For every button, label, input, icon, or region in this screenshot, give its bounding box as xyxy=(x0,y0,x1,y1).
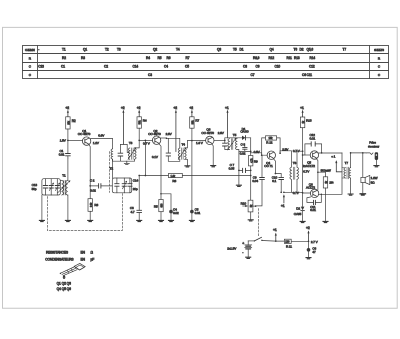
svg-text:1.6 V: 1.6 V xyxy=(196,141,204,145)
T5 tank loop + capacitor xyxy=(223,138,237,150)
svg-text:R11: R11 xyxy=(287,56,293,60)
svg-text:C 2: C 2 xyxy=(90,179,95,183)
ground (T5 secondary) xyxy=(236,185,241,186)
table row 3 entries xyxy=(38,65,315,69)
node R14 tap xyxy=(317,171,319,173)
resistor R11 xyxy=(276,239,309,248)
ground (Q3 emitter) xyxy=(211,166,216,167)
svg-text:SHEETS: SHEETS xyxy=(374,48,384,52)
resistor R3 xyxy=(88,186,99,220)
wire Q5 emitter down xyxy=(316,159,318,190)
svg-text:0.5V: 0.5V xyxy=(254,150,261,154)
svg-text:2.8V: 2.8V xyxy=(218,131,225,135)
svg-text:0.01: 0.01 xyxy=(310,208,316,212)
node emitter / C2 junction xyxy=(89,185,91,187)
table row 4 entries xyxy=(148,73,312,77)
svg-text:C1: C1 xyxy=(61,65,65,69)
svg-text:0.05: 0.05 xyxy=(229,167,235,171)
svg-text:µF: µF xyxy=(91,257,95,261)
svg-text:+2: +2 xyxy=(306,226,310,230)
T3 windings xyxy=(128,141,136,159)
svg-text:0.7 V: 0.7 V xyxy=(293,149,301,153)
svg-text:+2: +2 xyxy=(173,106,177,110)
svg-text:Q4: Q4 xyxy=(270,48,274,52)
resistor R9 xyxy=(249,150,261,200)
node Q4 emitter tap xyxy=(275,173,277,175)
node +1 bottom xyxy=(283,191,285,193)
wire AGC rail xyxy=(139,175,251,177)
wire T6 top to R13 node xyxy=(297,150,303,152)
ground (battery) xyxy=(246,257,251,258)
svg-text:R5: R5 xyxy=(158,56,162,60)
node Q3 base xyxy=(191,140,193,142)
svg-text:0.6V: 0.6V xyxy=(98,134,105,138)
node speaker tap xyxy=(362,152,364,154)
svg-text:C: C xyxy=(378,65,381,69)
capacitor C9 xyxy=(252,155,264,206)
svg-text:0.1: 0.1 xyxy=(272,179,276,183)
supply +2 arrow (R7) xyxy=(189,106,193,117)
svg-text:-: - xyxy=(38,48,39,52)
node rail right xyxy=(250,175,252,177)
svg-text:(¹): (¹) xyxy=(63,276,65,279)
svg-text:C: C xyxy=(378,73,381,77)
svg-text:0.01: 0.01 xyxy=(195,211,201,215)
table row 2 entries xyxy=(62,56,315,60)
capacitor C8 xyxy=(239,143,251,156)
ground (T4 secondary) xyxy=(185,166,190,167)
wire Q4 collector to T6 xyxy=(280,151,291,153)
svg-text:R13: R13 xyxy=(306,119,312,123)
T4 tank loop + capacitor xyxy=(166,138,180,161)
wire Q2 base xyxy=(139,139,152,141)
T3 secondary top to Q2 base node xyxy=(135,140,140,148)
wire +1 feed bottom xyxy=(284,191,311,194)
node C10 bottom xyxy=(280,191,282,193)
svg-text:T4: T4 xyxy=(182,143,186,147)
gang1 variable cap b xyxy=(55,179,60,195)
wire AGC drop xyxy=(144,140,146,175)
svg-text:8Ω: 8Ω xyxy=(371,181,376,185)
svg-text:OC 45/70: OC 45/70 xyxy=(78,132,91,136)
wire Q6 collector xyxy=(318,153,342,194)
component location table xyxy=(23,46,389,79)
capacitor C1 xyxy=(59,140,70,158)
svg-text:+1: +1 xyxy=(300,106,304,110)
svg-text:0.7 V: 0.7 V xyxy=(143,141,151,145)
svg-text:Q4 Q5 Q6: Q4 Q5 Q6 xyxy=(57,287,71,291)
on/off switch xyxy=(248,237,276,241)
table row labels xyxy=(25,48,384,77)
headphone jack xyxy=(366,141,379,167)
resistor R14 xyxy=(318,172,334,221)
svg-text:R9: R9 xyxy=(254,159,258,163)
wire Q5 collector to rail xyxy=(318,152,342,154)
resistor R7 xyxy=(190,117,200,141)
node Q4 base feed xyxy=(250,152,251,153)
wire Q2 collector xyxy=(160,137,166,139)
gang1 fixed cap xyxy=(43,179,47,195)
svg-text:C4: C4 xyxy=(164,65,168,69)
svg-text:R6: R6 xyxy=(172,179,176,183)
node AGC to base xyxy=(145,140,147,142)
dashed link T2 tuning xyxy=(108,152,110,193)
svg-text:R 11: R 11 xyxy=(286,245,292,249)
svg-text:4.7: 4.7 xyxy=(131,210,135,214)
supply +1 arrow (R13) xyxy=(300,106,304,117)
capacitor C2 xyxy=(90,179,112,193)
dashed gang coupling xyxy=(48,194,123,231)
svg-text:Q5,6: Q5,6 xyxy=(307,48,314,52)
ground (T1) xyxy=(65,220,70,221)
svg-text:1.2W: 1.2W xyxy=(371,176,378,180)
svg-text:R3: R3 xyxy=(81,56,85,60)
resistor R6 xyxy=(169,173,183,183)
ground (C5) xyxy=(189,220,194,221)
svg-text:R4: R4 xyxy=(143,119,147,123)
svg-text:R: R xyxy=(29,56,32,60)
transistor Q2 xyxy=(148,129,172,159)
svg-text:T3: T3 xyxy=(129,141,133,145)
wire Q3 emitter to ground xyxy=(212,144,213,165)
svg-text:D2: D2 xyxy=(296,206,300,210)
wire Q5 base xyxy=(303,154,311,156)
transistor Q6 xyxy=(306,182,319,197)
variable capacitor C13 labels xyxy=(32,183,38,191)
ground (C3) xyxy=(137,220,142,221)
svg-text:T5: T5 xyxy=(233,133,237,137)
wire C5 drop xyxy=(191,141,193,210)
svg-text:T2: T2 xyxy=(105,48,109,52)
diode D2 bias xyxy=(294,193,305,221)
svg-text:0.1V: 0.1V xyxy=(152,155,159,159)
svg-text:+ 1: + 1 xyxy=(331,155,335,159)
T4 secondary top to Q3 base xyxy=(185,141,188,148)
ground (C4) xyxy=(169,220,174,221)
svg-text:CONDENSATEURS: CONDENSATEURS xyxy=(45,257,74,261)
svg-text:+1: +1 xyxy=(273,228,277,232)
svg-text:T1: T1 xyxy=(62,48,66,52)
node emitter bypass xyxy=(160,193,162,195)
svg-text:R3: R3 xyxy=(94,203,98,207)
svg-text:R2: R2 xyxy=(62,56,66,60)
svg-text:C14: C14 xyxy=(133,178,139,182)
T7 windings xyxy=(342,152,351,193)
svg-text:R5: R5 xyxy=(154,204,158,208)
table row 1 entries xyxy=(38,48,346,52)
svg-text:T3: T3 xyxy=(117,48,121,52)
resistor R5 xyxy=(154,200,164,220)
capacitor C12 feedback xyxy=(305,133,322,155)
ground (T3 tank) xyxy=(124,161,129,164)
svg-text:C8: C8 xyxy=(243,65,247,69)
svg-text:C14: C14 xyxy=(133,65,139,69)
svg-text:0.04: 0.04 xyxy=(252,179,258,183)
svg-text:D2: D2 xyxy=(300,48,304,52)
tuning gang 1 frame xyxy=(42,179,60,195)
svg-text:C13: C13 xyxy=(38,65,44,69)
svg-text:C7: C7 xyxy=(251,73,255,77)
capacitor C11 xyxy=(307,194,321,212)
ground (C6) xyxy=(306,258,311,259)
transformer T1 xyxy=(58,174,71,195)
transistor case drawing xyxy=(60,263,85,278)
node R13/T6 xyxy=(302,150,304,152)
svg-text:C3: C3 xyxy=(148,73,152,77)
ground (R10) xyxy=(248,220,253,221)
svg-text:0.02: 0.02 xyxy=(240,152,246,156)
svg-text:T6: T6 xyxy=(294,48,298,52)
svg-text:C9: C9 xyxy=(256,65,260,69)
transistor Q1 xyxy=(78,129,105,145)
svg-text:RESISTANCES: RESISTANCES xyxy=(46,250,69,254)
svg-text:+2: +2 xyxy=(189,106,193,110)
wire T2 to gang2 xyxy=(112,159,114,178)
svg-text:R12: R12 xyxy=(269,56,275,60)
supply +1 arrow (T5) xyxy=(225,106,229,138)
svg-text:Q1: Q1 xyxy=(83,48,87,52)
capacitor C7 xyxy=(229,163,252,172)
detector line down xyxy=(250,138,252,156)
svg-text:R14: R14 xyxy=(310,56,316,60)
svg-text:R6: R6 xyxy=(167,56,171,60)
svg-text:C: C xyxy=(29,65,32,69)
svg-text:+1: +1 xyxy=(281,204,285,208)
T4 secondary bottom to ground xyxy=(185,159,188,165)
node Q2 collector xyxy=(166,137,168,139)
potentiometer R10 volume xyxy=(241,200,257,219)
svg-text:C 8: C 8 xyxy=(241,143,246,147)
svg-text:Q2: Q2 xyxy=(153,48,157,52)
svg-text:R13: R13 xyxy=(294,56,300,60)
svg-text:écouteur: écouteur xyxy=(368,144,379,148)
supply +1 arrow (T7 tap) xyxy=(331,155,342,172)
svg-text:0.7V: 0.7V xyxy=(293,191,300,195)
diode D1 xyxy=(237,127,251,140)
node Q2 base xyxy=(138,140,140,142)
wire C1 to T1 secondary xyxy=(67,158,69,180)
resistor R12 feedback xyxy=(262,136,280,155)
svg-text:0.01: 0.01 xyxy=(59,153,65,157)
svg-text:C5: C5 xyxy=(185,65,189,69)
svg-text:C: C xyxy=(29,73,32,77)
T5 secondary bottom line xyxy=(237,150,239,185)
svg-text:500mW: 500mW xyxy=(321,168,331,172)
wire T1 secondary to ground xyxy=(67,195,69,220)
resistor R4 xyxy=(137,117,147,141)
node R12/C9 xyxy=(261,154,263,156)
svg-text:OC 45/70: OC 45/70 xyxy=(201,131,214,135)
wire R2 to node xyxy=(67,129,69,140)
tuning gang 2 frame xyxy=(112,178,131,193)
T4 windings xyxy=(178,143,186,160)
supply +2 arrow (T3) xyxy=(121,106,125,144)
svg-text:R7: R7 xyxy=(186,56,190,60)
wire Q2 emitter xyxy=(159,144,161,200)
T6 windings xyxy=(290,151,299,193)
svg-text:OA95: OA95 xyxy=(294,212,302,216)
svg-text:2.8V: 2.8V xyxy=(166,132,173,136)
svg-text:+: + xyxy=(242,241,244,245)
svg-text:0.7V: 0.7V xyxy=(303,170,310,174)
svg-text:120: 120 xyxy=(285,240,290,244)
transistor Q3 xyxy=(196,128,225,145)
T3 tank loop + capacitor xyxy=(113,144,130,161)
svg-text:1.2V: 1.2V xyxy=(93,141,100,145)
T3 secondary bottom xyxy=(127,159,135,161)
wire Q3 collector xyxy=(214,139,225,141)
svg-text:1%: 1% xyxy=(329,181,334,185)
svg-text:CHEMIN: CHEMIN xyxy=(25,48,35,52)
svg-text:R4: R4 xyxy=(146,56,150,60)
resistor R2 xyxy=(66,117,76,129)
svg-text:C2: C2 xyxy=(104,65,108,69)
ground (speaker) xyxy=(360,194,365,195)
supply +1 arrow (battery node) xyxy=(273,228,277,242)
svg-text:1.8k: 1.8k xyxy=(171,174,176,178)
ground (D2) xyxy=(300,221,305,222)
svg-text:2x1.5V: 2x1.5V xyxy=(227,246,237,250)
svg-text:R8,9: R8,9 xyxy=(253,56,260,60)
ground (gang1) xyxy=(39,220,44,221)
svg-text:R: R xyxy=(378,56,381,60)
svg-text:OC 71: OC 71 xyxy=(264,164,273,168)
supply +2 arrow (R4) xyxy=(137,106,141,117)
svg-text:+1: +1 xyxy=(225,106,229,110)
wire collector down xyxy=(112,139,114,149)
capacitor C6 (electrolytic) xyxy=(307,241,317,257)
svg-text:D1: D1 xyxy=(240,48,244,52)
wire rail to jack xyxy=(351,152,367,154)
svg-text:T7: T7 xyxy=(343,48,347,52)
supply +2 arrow (C6 node) xyxy=(306,226,319,244)
svg-text:OC 45/70: OC 45/70 xyxy=(148,132,161,136)
supply +2 arrow (R2) xyxy=(65,106,69,117)
node Q4 collector xyxy=(279,152,281,154)
svg-text:R10: R10 xyxy=(241,202,247,206)
capacitor C4 (electrolytic) xyxy=(161,194,179,220)
node C8 junction xyxy=(250,151,252,153)
svg-text:R 12: R 12 xyxy=(266,141,273,145)
svg-text:1.5V: 1.5V xyxy=(60,139,67,143)
svg-text:R7: R7 xyxy=(195,119,199,123)
svg-text:T4: T4 xyxy=(176,48,180,52)
gang2 variable cap C14 xyxy=(122,178,127,193)
resistor R13 xyxy=(300,117,311,155)
battery 2x1.5V xyxy=(227,241,252,257)
node Q1 base / label 1.5V xyxy=(60,139,69,143)
wire Q4 base feed xyxy=(251,153,268,155)
wire Q3 base xyxy=(187,140,205,142)
svg-text:0.01: 0.01 xyxy=(310,136,316,140)
transistor Q4 xyxy=(264,147,289,168)
svg-text:T6: T6 xyxy=(293,161,297,165)
transistor list xyxy=(57,281,71,291)
svg-text:C6 C11: C6 C11 xyxy=(302,73,312,77)
wire gang1 to ground xyxy=(41,195,43,220)
svg-text:Q1 Q2 Q3: Q1 Q2 Q3 xyxy=(57,281,71,285)
supply +1 arrow (bottom) xyxy=(281,194,285,208)
wire base rail xyxy=(302,155,304,193)
transformer T2 (osc winding) xyxy=(110,149,114,171)
svg-text:Q3: Q3 xyxy=(217,48,221,52)
svg-text:T1: T1 xyxy=(62,174,66,178)
gang2 fixed cap xyxy=(115,178,119,193)
svg-text:T5: T5 xyxy=(233,48,237,52)
svg-text:EN: EN xyxy=(81,257,86,261)
svg-text:+2: +2 xyxy=(65,106,69,110)
speaker xyxy=(361,153,378,193)
svg-text:20p: 20p xyxy=(133,187,138,191)
svg-text:50p: 50p xyxy=(32,187,37,191)
svg-text:T7: T7 xyxy=(345,161,349,165)
svg-text:C12: C12 xyxy=(309,65,315,69)
gang2 trimmer cap xyxy=(128,178,132,193)
node T5 cap top xyxy=(224,140,226,142)
capacitor C10 xyxy=(272,174,284,193)
svg-text:R2: R2 xyxy=(72,119,76,123)
ground (R5) xyxy=(159,220,164,221)
wire Q4 emitter xyxy=(273,159,275,174)
svg-text:AC172: AC172 xyxy=(306,185,315,189)
capacitor C5 (electrolytic) xyxy=(190,207,201,219)
svg-text:C10: C10 xyxy=(275,65,281,69)
ground (R3) xyxy=(88,220,93,221)
wire Q1 emitter xyxy=(89,145,90,186)
dashed pot-switch link xyxy=(258,209,260,237)
svg-text:+2: +2 xyxy=(121,106,125,110)
transistor Q5 xyxy=(303,151,319,168)
ground (T7 secondary) xyxy=(348,194,353,195)
wire Q1 collector xyxy=(91,138,113,140)
svg-text:47: 47 xyxy=(312,250,316,254)
svg-text:Ω: Ω xyxy=(91,250,94,254)
svg-text:0.02: 0.02 xyxy=(173,211,179,215)
label C14 20p xyxy=(133,178,139,191)
capacitor C3 xyxy=(130,176,142,220)
wire base xyxy=(68,139,83,141)
svg-text:2.7 V: 2.7 V xyxy=(311,240,319,244)
svg-text:0.02: 0.02 xyxy=(90,189,96,193)
svg-text:OA 90: OA 90 xyxy=(240,130,248,134)
units note xyxy=(45,250,94,261)
supply +2 arrow (T4) xyxy=(173,106,177,151)
svg-text:-: - xyxy=(242,250,244,254)
ground (R14) xyxy=(323,221,328,222)
svg-text:2xAC172: 2xAC172 xyxy=(303,164,315,168)
node rail left xyxy=(138,175,140,177)
svg-text:EN: EN xyxy=(81,250,86,254)
svg-text:+2: +2 xyxy=(137,106,141,110)
T5 windings xyxy=(228,133,237,150)
gang1 variable cap a xyxy=(49,179,54,195)
